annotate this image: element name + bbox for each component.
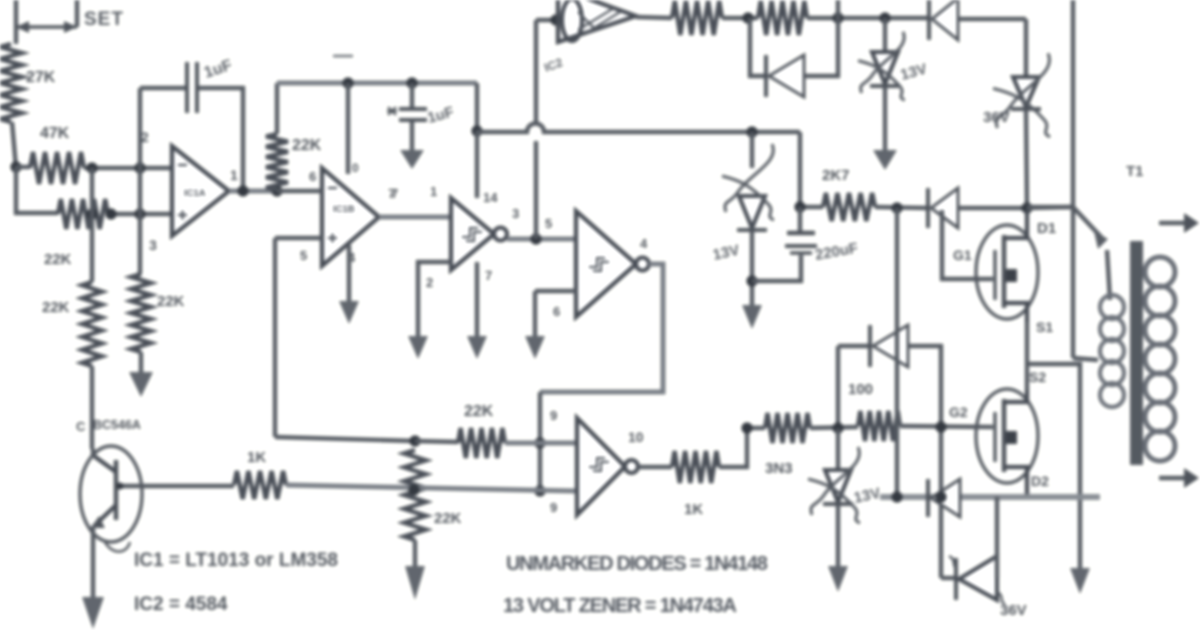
- ground: [405, 566, 425, 600]
- wire IC2B out: [540, 264, 663, 392]
- ground: [742, 305, 762, 329]
- node: [237, 185, 248, 196]
- wire: [535, 289, 576, 293]
- wire base2: [286, 485, 576, 491]
- node: [741, 422, 752, 433]
- wire: [475, 83, 479, 131]
- node: [746, 126, 757, 137]
- node: [746, 275, 757, 286]
- wire: [636, 17, 672, 18]
- node: [408, 484, 419, 495]
- node: [105, 208, 116, 219]
- resistor 1K (out): [672, 451, 719, 483]
- svg-text:D2: D2: [1031, 473, 1049, 489]
- wire: [138, 168, 142, 214]
- svg-text:27K: 27K: [26, 69, 56, 86]
- svg-text:9: 9: [550, 408, 557, 423]
- transformer T1 core: [1130, 241, 1143, 465]
- wire: [1026, 110, 1027, 207]
- svg-text:47K: 47K: [40, 125, 70, 142]
- svg-text:36V: 36V: [1000, 602, 1027, 619]
- wire: [942, 210, 993, 279]
- wire: [747, 426, 765, 430]
- node: [342, 77, 353, 88]
- wire: [84, 166, 172, 170]
- svg-text:G1: G1: [953, 247, 972, 263]
- wire: [346, 83, 350, 174]
- transformer T1 primary winding: [1100, 295, 1124, 319]
- wire: [277, 189, 322, 193]
- wire: [900, 426, 993, 427]
- wire to winding bottom: [1073, 358, 1098, 360]
- wire: [275, 83, 279, 134]
- svg-text:C: C: [76, 419, 86, 434]
- gate IC2C: [577, 418, 625, 515]
- svg-text:0: 0: [352, 161, 359, 175]
- tick mark: [333, 55, 353, 58]
- wire: [534, 141, 538, 239]
- node: [550, 14, 561, 25]
- wire: [475, 131, 479, 198]
- resistor 22K (vertical left): [82, 282, 102, 366]
- svg-text:2K7: 2K7: [822, 167, 850, 184]
- wire IC1A output: [229, 189, 277, 194]
- diode (feedback): [764, 55, 768, 97]
- diode (G1 drive): [926, 188, 930, 228]
- node: [879, 12, 890, 23]
- capacitor 1uF (to ground): [399, 107, 427, 111]
- wire: [836, 429, 840, 468]
- svg-text:IC2 = 4584: IC2 = 4584: [134, 594, 228, 615]
- resistor (osc): [672, 1, 722, 35]
- wire: [14, 27, 18, 44]
- zener 36V (bottom): [954, 558, 958, 600]
- wire: [895, 208, 899, 496]
- resistor 22K (input divider): [58, 199, 108, 229]
- op-amp IC1A: [172, 146, 229, 236]
- svg-text:22K: 22K: [44, 251, 72, 268]
- wire: [1027, 205, 1073, 209]
- wire: [750, 132, 754, 168]
- node: [530, 233, 541, 244]
- ground: [873, 150, 897, 170]
- wire: [995, 497, 999, 578]
- svg-text:13 VOLT ZENER = 1N4743A: 13 VOLT ZENER = 1N4743A: [503, 595, 736, 617]
- wire: [722, 16, 758, 20]
- wire: [138, 88, 142, 168]
- wire: [1025, 322, 1029, 390]
- resistor 22K (vertical right): [131, 274, 151, 352]
- svg-text:1K: 1K: [684, 501, 703, 518]
- resistor 27K (vertical, clipped at left edge): [0, 44, 22, 122]
- svg-text:6: 6: [553, 304, 560, 319]
- ground: [828, 566, 848, 592]
- ground IC2B: [525, 336, 545, 359]
- capacitor 220uF: [787, 231, 815, 236]
- svg-text:14: 14: [483, 190, 498, 205]
- secondary terminal top: [1159, 221, 1186, 225]
- wire IC2C out: [638, 465, 672, 469]
- wire: [875, 207, 928, 208]
- svg-text:3: 3: [149, 237, 157, 253]
- wire: [800, 205, 823, 209]
- wire: [16, 167, 58, 213]
- svg-text:SET: SET: [84, 9, 124, 30]
- svg-text:7: 7: [485, 268, 492, 283]
- node: [935, 491, 946, 502]
- zener 13V (middle): [739, 196, 765, 228]
- svg-text:BC546A: BC546A: [93, 418, 141, 432]
- zener 13V (gate clamp): [825, 470, 851, 502]
- wire: [199, 88, 243, 190]
- svg-text:IC1B: IC1B: [333, 204, 355, 215]
- svg-text:G2: G2: [949, 404, 968, 420]
- svg-text:10: 10: [628, 429, 644, 445]
- wire: [410, 83, 414, 107]
- svg-text:22K: 22K: [292, 137, 322, 154]
- op-amp IC1B: [322, 168, 379, 266]
- wire: [798, 132, 802, 207]
- svg-text:6: 6: [309, 169, 316, 184]
- svg-text:4: 4: [640, 236, 648, 251]
- wire feedback: [273, 238, 277, 437]
- node: [534, 437, 545, 448]
- wire: [941, 576, 956, 580]
- wire: [958, 206, 1027, 210]
- resistor 100: [858, 411, 900, 441]
- node: [832, 422, 843, 433]
- transistor Q1 (MOSFET): [976, 225, 1038, 319]
- ground IC2A: [475, 262, 479, 336]
- svg-text:IC1 = LT1013 or LM358: IC1 = LT1013 or LM358: [134, 550, 338, 571]
- transistor Q1 BJT: [80, 446, 142, 542]
- node: [271, 185, 282, 196]
- wire: [752, 255, 801, 281]
- svg-text:2: 2: [141, 129, 149, 145]
- svg-text:22K: 22K: [157, 293, 185, 310]
- node: [832, 12, 843, 23]
- wire primary feed: [1071, 0, 1075, 358]
- transistor Q2 (MOSFET): [976, 389, 1038, 483]
- capacitor 1uF (feedback): [185, 62, 189, 113]
- svg-text:9: 9: [550, 500, 557, 515]
- wire: [883, 18, 887, 50]
- svg-text:T1: T1: [1126, 163, 1144, 180]
- node: [134, 162, 145, 173]
- wire: [533, 291, 537, 336]
- wire: [538, 392, 542, 492]
- node: [534, 485, 545, 496]
- wire: [908, 346, 941, 578]
- node: [86, 208, 97, 219]
- diode (clamp): [868, 325, 872, 367]
- wire: [138, 214, 142, 274]
- wire: [534, 20, 538, 123]
- wire: [1024, 19, 1028, 75]
- ground IC1B: [347, 245, 351, 301]
- resistor 22K (feedback): [458, 428, 505, 458]
- gate IC2D (clipped): [558, 0, 636, 42]
- ground: [400, 150, 424, 169]
- wire: [536, 18, 556, 22]
- wire: [750, 18, 764, 76]
- svg-text:36V: 36V: [983, 109, 1010, 126]
- wire emitter: [91, 526, 95, 597]
- resistor (osc 2): [758, 1, 807, 35]
- wire: [413, 540, 417, 566]
- wire rail: [277, 81, 477, 86]
- node: [891, 491, 902, 502]
- svg-text:22K: 22K: [464, 403, 494, 420]
- wire D1: [1027, 207, 1073, 208]
- wire: [1027, 364, 1080, 568]
- wire: [807, 16, 928, 20]
- wire IC1B output: [379, 215, 451, 220]
- wire: [16, 165, 30, 169]
- svg-text:5: 5: [300, 248, 307, 263]
- resistor 2K7: [823, 193, 875, 221]
- svg-text:2: 2: [426, 275, 433, 290]
- wire: [415, 441, 458, 442]
- zener 36V (top): [1013, 77, 1039, 107]
- ground: [1070, 568, 1090, 594]
- wire: [798, 207, 802, 232]
- wire to winding top: [1073, 207, 1102, 238]
- svg-text:5: 5: [545, 216, 552, 231]
- wire: [505, 441, 576, 446]
- ground: [408, 336, 428, 359]
- bus wire: [880, 494, 1100, 500]
- wire: [275, 236, 322, 240]
- wire: [838, 344, 869, 348]
- svg-text:100: 100: [848, 381, 873, 398]
- wire: [12, 122, 16, 168]
- svg-text:IC1A: IC1A: [184, 188, 206, 199]
- wire collector: [91, 449, 95, 458]
- wire pin2 to gnd: [418, 262, 451, 336]
- node: [471, 125, 482, 136]
- wire: [108, 212, 172, 216]
- svg-text:S1: S1: [1036, 319, 1053, 335]
- wire: [836, 346, 840, 429]
- node: [1021, 202, 1032, 213]
- resistor 3N3: [765, 413, 810, 443]
- ground: [129, 372, 153, 397]
- wire: [958, 17, 1026, 21]
- svg-text:22K: 22K: [42, 299, 70, 316]
- wire: [804, 18, 838, 76]
- node: [742, 12, 753, 23]
- node: [935, 421, 946, 432]
- svg-text:3N3: 3N3: [765, 460, 793, 477]
- wire: [836, 506, 840, 566]
- node: [134, 208, 145, 219]
- resistor 22K (to ground): [404, 450, 426, 540]
- wire: [810, 427, 858, 428]
- node: [406, 77, 417, 88]
- svg-text:S2: S2: [1029, 369, 1046, 385]
- svg-text:1: 1: [430, 184, 437, 199]
- wire: [883, 88, 887, 150]
- svg-text:1K: 1K: [247, 449, 266, 466]
- node: [891, 202, 902, 213]
- wire: [90, 168, 94, 282]
- node: [10, 161, 21, 172]
- SET trimmer box (cut at top): [14, 0, 18, 27]
- svg-text:UNMARKED DIODES = 1N4148: UNMARKED DIODES = 1N4148: [506, 553, 768, 575]
- wire: [140, 86, 185, 90]
- gate IC2B: [576, 211, 636, 317]
- wire IC2A out: [507, 237, 576, 242]
- node: [794, 201, 805, 212]
- transformer T1 secondary winding: [1145, 257, 1175, 287]
- wire with hop: [477, 124, 800, 132]
- wire: [275, 437, 415, 441]
- resistor 1K (base): [234, 471, 286, 499]
- wire: [719, 428, 747, 467]
- wire: [750, 232, 754, 305]
- wire: [410, 121, 414, 150]
- secondary terminal bottom: [1159, 476, 1186, 480]
- zener 13V (osc clamp): [872, 52, 898, 84]
- wire base: [117, 484, 234, 488]
- wire: [139, 352, 143, 372]
- node: [117, 483, 124, 490]
- gate IC2A: [451, 198, 494, 270]
- ground: [82, 597, 104, 629]
- svg-text:1: 1: [230, 167, 238, 183]
- svg-text:D1: D1: [1037, 220, 1056, 237]
- resistor 47K: [30, 152, 84, 184]
- diode (on bus): [926, 479, 930, 517]
- node: [409, 435, 420, 446]
- resistor 22K (IC1B input): [266, 134, 288, 190]
- wire: [90, 366, 94, 449]
- svg-text:7: 7: [391, 186, 398, 201]
- svg-text:22K: 22K: [434, 510, 462, 527]
- wire stub from top: [836, 0, 840, 18]
- svg-text:3: 3: [512, 206, 519, 221]
- diode (top right): [927, 0, 931, 40]
- node: [86, 162, 97, 173]
